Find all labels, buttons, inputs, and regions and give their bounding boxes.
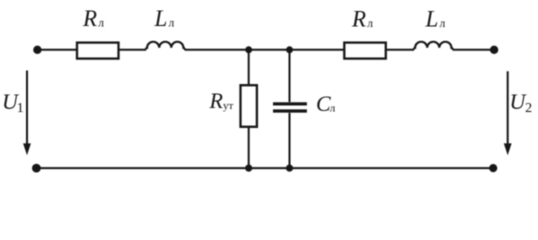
svg-text:Rл: Rл [82,6,104,31]
svg-text:Cл: Cл [316,91,336,116]
svg-text:Rл: Rл [351,7,373,32]
svg-text:Lл: Lл [154,6,175,31]
svg-text:Lл: Lл [425,7,446,32]
svg-text:U1: U1 [2,89,24,116]
svg-text:U2: U2 [510,89,533,116]
svg-text:Rут: Rут [209,88,234,113]
